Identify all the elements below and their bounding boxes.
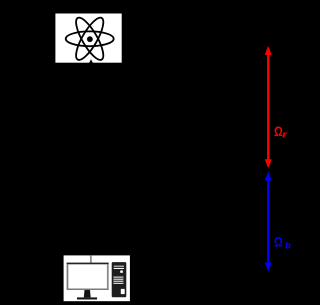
monitor bezel left (67, 264, 69, 288)
computer icon box (classical computer node) (64, 255, 130, 301)
svg-text:Ω: Ω (274, 234, 283, 250)
monitor bezel right (107, 264, 109, 288)
atom orbital ellipse 2 (rotated +60) (71, 14, 108, 63)
svg-text:b: b (285, 240, 291, 251)
svg-text:r: r (282, 130, 288, 140)
monitor bezel bottom (67, 289, 109, 291)
atom orbital ellipse 3 (rotated -60) (71, 14, 108, 63)
tower vent line 1 (114, 265, 124, 268)
atom nucleus (87, 36, 93, 42)
wire from atom to computer (visible segment over white box) (90, 255, 92, 263)
tower vent line 2 (114, 268, 124, 269)
tower vent group line 4 (113, 283, 123, 284)
tower vent group line 2 (113, 279, 123, 280)
atom orbital ellipse 1 (horizontal) (66, 31, 114, 46)
monitor screen (68, 264, 107, 288)
tower vent group line 1 (113, 277, 123, 278)
tower drive bay (121, 289, 125, 294)
monitor bezel top (67, 263, 109, 265)
tower power dot (120, 270, 123, 273)
wire arrowhead pointing up into atom box (89, 59, 93, 63)
monitor stand base (77, 297, 97, 299)
tower case (112, 262, 127, 297)
red arrow Omega_r (double headed, vertical) (265, 46, 272, 168)
atom icon box (trapped ion / atom node) (55, 14, 121, 63)
monitor stand neck (84, 290, 91, 297)
blue arrow Omega_b (double headed, vertical) (265, 172, 272, 272)
tower vent group line 3 (113, 281, 123, 282)
